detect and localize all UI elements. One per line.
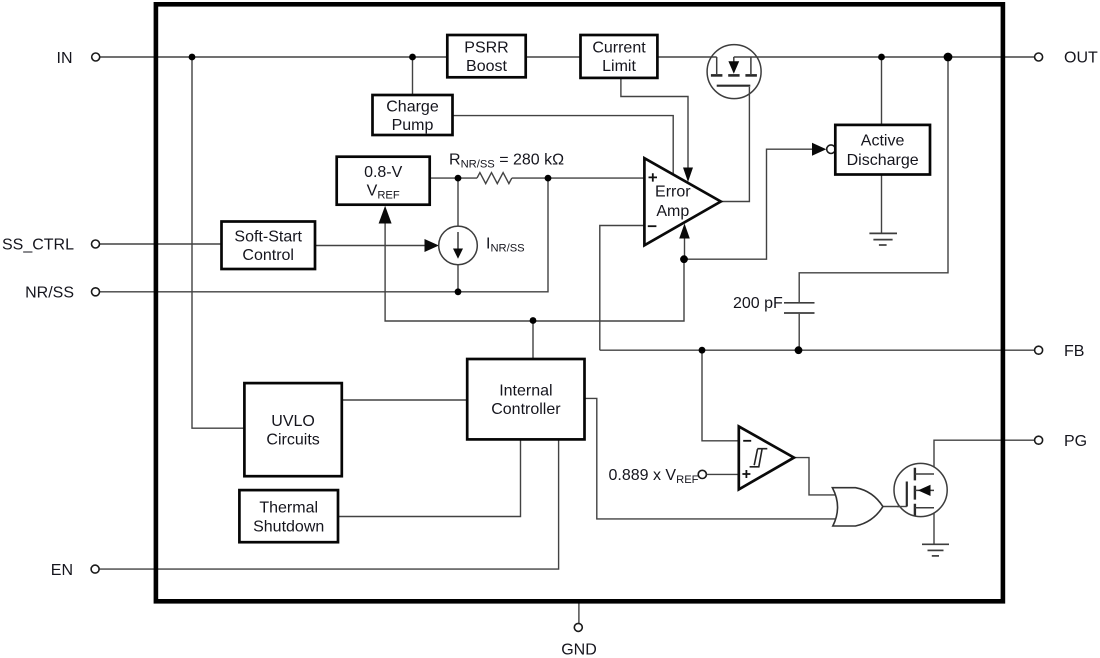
svg-text:PSRR: PSRR [464,39,508,56]
pass transistor Q1 body arrow [728,57,739,74]
pass transistor Q1 gate bar [717,85,751,87]
wire PG FET source to ground [933,507,935,544]
OR gate [832,488,883,526]
wire VREF control net [385,222,684,321]
svg-text:0.8-V: 0.8-V [364,164,403,181]
pass transistor Q1 drain lead [750,57,752,74]
svg-text:Shutdown: Shutdown [253,518,324,535]
junction dot resistor left [455,175,462,182]
pin NR/SS [25,285,99,302]
wire node to internal controller top [532,321,534,361]
wire OUT rail segment [734,56,1035,58]
block Charge Pump [373,95,453,135]
svg-text:Discharge: Discharge [847,152,919,169]
arrowhead current limit into error amp [683,168,693,183]
wire node to error amp bottom arrow [684,238,686,259]
pin OUT [1035,50,1098,67]
wire VREF box to resistor [430,177,477,179]
svg-text:PG: PG [1064,433,1087,450]
resistor R_NR/SS [477,173,512,184]
arrowhead into current source [425,239,439,252]
pin EN [51,562,99,579]
wire FB line [600,349,1035,351]
wire Internal Controller to OR gate [584,398,837,519]
current source I_NR/SS [439,226,478,265]
wire error amp output to pass FET gate [721,87,750,202]
svg-text:Circuits: Circuits [266,432,319,449]
svg-text:FB: FB [1064,343,1084,360]
wire resistor to error amp + input [512,177,645,179]
svg-text:Thermal: Thermal [259,500,318,517]
block Soft-Start Control [222,222,316,270]
block Active Discharge [835,125,930,175]
pin IN [57,50,100,67]
block UVLO Circuits [244,383,341,476]
wire resistor left to current source top [457,178,459,226]
svg-text:Control: Control [242,247,294,264]
pass transistor Q1 source lead [716,57,718,74]
svg-text:Active: Active [861,133,905,150]
outer IC boundary [156,4,1003,601]
wire UVLO to Internal Controller [341,399,468,401]
block 0.8-V VREF [337,157,430,205]
op-amp U1 Error Amp [644,158,720,245]
wire IN to Charge Pump [412,57,414,96]
svg-text:Error: Error [655,184,691,201]
wire OUT rail to 200pF capacitor [799,57,948,302]
svg-text:Current: Current [592,39,646,56]
transistor Q2 PG open-drain FET [894,463,947,516]
pass transistor Q1 circle [707,45,761,99]
node 0.889 x VREF [698,470,706,478]
wire PG FET drain to PG pin [934,440,1035,475]
junction dot OUT-cap [944,53,953,62]
wire error amp inverting input from FB [600,226,645,351]
block Current Limit [581,35,658,78]
arrowhead into active discharge [812,143,826,156]
ground symbol below Active Discharge [869,233,897,245]
pass transistor Q1 channel ticks [711,74,757,77]
svg-text:Boost: Boost [466,58,507,75]
pin PG [1035,433,1088,450]
junction dot OUT-activedischarge [878,54,885,61]
svg-text:IN: IN [57,50,73,67]
wire OUT rail to Active Discharge [881,57,883,126]
arrowhead up into error amp bottom [679,224,690,239]
svg-text:Soft-Start: Soft-Start [234,229,302,246]
arrowhead up into VREF box [379,206,392,224]
wire EN pin to Internal Controller [99,440,558,569]
svg-text:GND: GND [561,641,597,658]
svg-text:EN: EN [51,562,73,579]
svg-text:Controller: Controller [491,401,561,418]
wire Soft-Start Control to current source [315,245,426,247]
svg-text:SS_CTRL: SS_CTRL [2,237,74,254]
junction dot IN-branch [189,54,196,61]
wire SS_CTRL pin to Soft-Start Control [100,243,223,245]
wire resistor right to NR/SS pin [100,178,549,292]
wire current source bottom to NR/SS [457,265,459,292]
wire OR gate output to PG FET gate [883,506,907,508]
junction dot error amp bottom [680,255,688,263]
junction dot IN-chargepump [409,54,416,61]
block PSRR Boost [447,35,525,77]
wire Charge Pump to Error Amp [452,116,673,176]
wire 0.889 VREF node to comparator + input [707,473,740,475]
junction dot resistor right [545,175,552,182]
wire FB to comparator inverting input [702,350,740,441]
ground symbol below PG FET [922,544,949,556]
pin GND [561,623,597,658]
wire IN branch to UVLO [192,57,246,428]
capacitor C 200 pF [784,303,815,313]
svg-text:200 pF: 200 pF [733,295,783,312]
junction dot FB-cap [795,346,803,354]
wire Active Discharge to ground [881,174,883,233]
wire comparator output to OR gate [793,458,837,495]
svg-text:NR/SS: NR/SS [25,285,74,302]
comparator U2 power good [739,426,794,489]
wire Current Limit to Error Amp [621,77,688,168]
junction dot vref-controller [530,317,537,324]
block Internal Controller [467,359,584,439]
block Thermal Shutdown [239,490,338,542]
junction dot NR/SS [455,288,462,295]
svg-text:Amp: Amp [656,203,689,220]
wire capacitor bottom to FB line [798,314,800,350]
svg-text:Pump: Pump [392,117,434,134]
svg-text:UVLO: UVLO [271,413,315,430]
svg-text:Charge: Charge [386,98,439,115]
svg-text:Limit: Limit [602,58,636,75]
wire IN rail left segment [100,56,717,58]
wire node to active discharge enable [684,149,813,259]
wire GND stub [578,603,580,623]
svg-text:OUT: OUT [1064,50,1098,67]
junction dot FB-comparator [699,347,706,354]
pin FB [1035,343,1085,360]
wire Thermal Shutdown to Internal Controller [338,440,521,517]
svg-text:Internal: Internal [499,382,552,399]
pin SS_CTRL [2,237,100,254]
inversion bubble on active discharge input [827,145,836,154]
